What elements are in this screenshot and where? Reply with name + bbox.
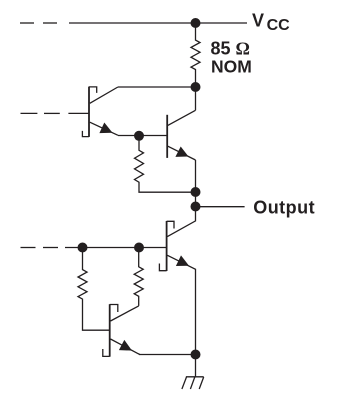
wire: lower rail dashed continuation (left) (21, 247, 140, 249)
node: Q2 emitter junction (191, 187, 201, 197)
wire: Q2 emitter down to emitter node (195, 160, 197, 192)
node A: Q1 emitter / Q2 base / R2 junction (134, 131, 144, 141)
ground (182, 377, 204, 389)
transistor Q2 (NPN, phase splitter) (139, 110, 196, 160)
wire: VCC rail solid segment to VCC label (69, 22, 247, 24)
wire: R1 bottom node to Q1 collector (118, 86, 196, 88)
svg-text:NOM: NOM (211, 56, 252, 76)
wire: Q2 collector up to R1 bottom node (195, 87, 197, 110)
wire: Q1 emitter to node A (118, 135, 139, 137)
node: VCC junction dot (191, 18, 201, 28)
resistor R3 (right pull-down) (134, 248, 143, 306)
node: Output junction (191, 202, 201, 212)
node: ground junction (191, 350, 201, 360)
svg-text:Output: Output (253, 197, 315, 217)
svg-text:85 Ω: 85 Ω (211, 38, 250, 58)
resistor R4 (left pull-down) (78, 248, 110, 331)
wire: ground node down to ground symbol (195, 355, 197, 377)
wire: output stub to label (196, 206, 245, 208)
wire: VCC rail dashed continuation (top left) (20, 22, 57, 24)
label: 85 ohm NOM (R1 value) (211, 38, 252, 76)
label: VCC (252, 11, 290, 35)
node: lower rail left junction (78, 243, 88, 253)
resistor R2 (base-emitter resistor of Q2 stage) (135, 136, 196, 192)
transistor Q3 (Schottky NPN, upper output) (139, 207, 196, 355)
transistor Q1 (Schottky NPN, upper left) (82, 87, 118, 137)
wire: Q4 emitter to ground node (139, 354, 196, 356)
transistor Q4 (Schottky NPN, lower output) (103, 304, 140, 357)
node: lower rail right junction (134, 243, 144, 253)
svg-text:V: V (252, 11, 264, 31)
node: R1 bottom junction (phase-splitter collector node) (191, 82, 201, 92)
resistor R1 85 ohm (191, 23, 200, 87)
wire: emitter node to output node (195, 192, 197, 207)
svg-text:CC: CC (267, 17, 291, 34)
wire: Q1 base dashed input (21, 112, 90, 114)
